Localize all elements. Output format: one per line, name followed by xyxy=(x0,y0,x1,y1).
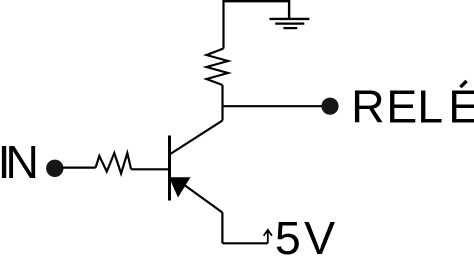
arrow: 5V supply arrow shaft xyxy=(267,231,269,243)
wire: base resistor to transistor base bar xyxy=(131,168,168,170)
wire: bottom horizontal to 5V arrow xyxy=(222,242,267,244)
resistor R1 (vertical, collector pull) xyxy=(207,49,229,86)
arrow: 5V supply arrowhead xyxy=(264,230,272,236)
label RELÉ acute accent xyxy=(460,81,466,87)
wire: top horizontal from collector resistor to ground drop xyxy=(224,0,290,2)
node: IN terminal dot xyxy=(46,160,63,177)
resistor R2 (horizontal, base) xyxy=(96,153,132,174)
wire: vertical from top wire down to resistor R1 top xyxy=(222,0,224,49)
transistor Q1 emitter arrow (PNP) xyxy=(169,177,191,197)
wire: vertical from R1 bottom to collector corner xyxy=(221,85,223,121)
svg-text:IN: IN xyxy=(0,136,39,188)
transistor Q1 base bar xyxy=(168,136,171,201)
wire: IN dot to base resistor xyxy=(62,167,96,169)
wire: emitter vertical drop xyxy=(221,213,223,244)
transistor Q1 emitter lead xyxy=(176,179,222,213)
transistor Q1 collector lead xyxy=(170,121,223,155)
node: RELÉ terminal dot xyxy=(321,98,338,115)
wire: vertical drop to ground symbol xyxy=(288,0,290,19)
wire: horizontal from collector node to RELÉ dot xyxy=(223,105,323,107)
svg-text:5V: 5V xyxy=(275,212,335,257)
ground xyxy=(270,19,310,28)
svg-text:RELE: RELE xyxy=(351,80,474,132)
